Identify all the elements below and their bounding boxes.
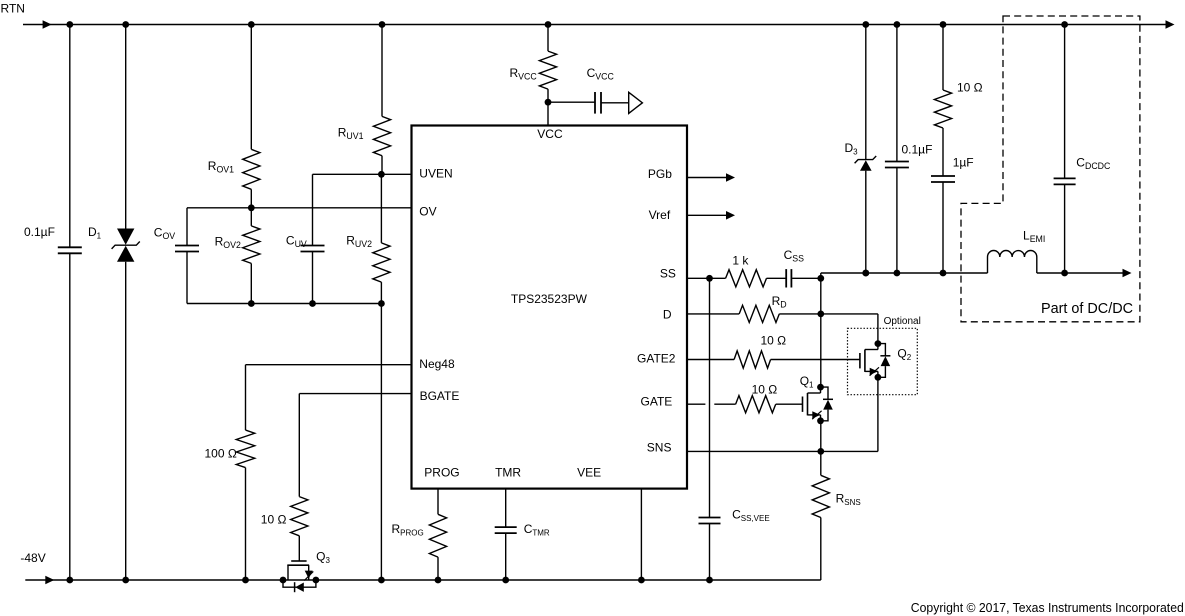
capacitor CSS xyxy=(785,269,787,287)
capacitor 0.1µF right xyxy=(885,161,909,163)
capacitor CUV wire bottom xyxy=(312,252,314,304)
capacitor CTMR wire top xyxy=(505,489,507,527)
wire CSS to drain node xyxy=(792,277,821,279)
wire SS node down xyxy=(709,278,711,517)
op-amp U1 TPS23523PW box xyxy=(412,126,688,489)
wire Neg48 down xyxy=(245,365,247,430)
wire 100 Ohm to rail xyxy=(245,468,247,580)
wire Q1 source down xyxy=(820,421,822,452)
arrow output to DC/DC xyxy=(1123,269,1132,278)
wire output rail right part xyxy=(1037,272,1123,274)
transistor Q3 left leg xyxy=(287,565,289,580)
wire PGb output xyxy=(687,177,727,179)
resistor RVCC xyxy=(547,25,549,52)
capacitor CSS,VEE xyxy=(699,517,721,519)
capacitor 0.1µF right wire top xyxy=(896,25,898,162)
wire RD to Q2 drain xyxy=(779,313,878,315)
wire GATE pin segment xyxy=(687,403,705,405)
svg-text:UVEN: UVEN xyxy=(419,167,452,181)
svg-text:Part of DC/DC: Part of DC/DC xyxy=(1041,301,1133,317)
svg-text:VCC: VCC xyxy=(537,127,563,141)
wire CVCC left xyxy=(548,101,595,103)
capacitor 0.1µF right wire bottom xyxy=(896,168,898,274)
svg-text:100 Ω: 100 Ω xyxy=(205,447,237,461)
wire output rail left part xyxy=(821,272,988,274)
svg-text:Optional: Optional xyxy=(884,316,921,327)
capacitor CUV wire top xyxy=(312,174,314,245)
svg-text:GATE2: GATE2 xyxy=(637,352,676,366)
svg-text:10 Ω: 10 Ω xyxy=(752,383,778,397)
resistor 100 Ohm xyxy=(236,430,254,468)
resistor ROV2 xyxy=(250,208,252,226)
svg-text:SNS: SNS xyxy=(647,441,672,455)
resistor 10 Ohm GATE xyxy=(736,396,776,413)
wire 1k to CSS xyxy=(767,277,787,279)
capacitor CTMR xyxy=(495,526,517,528)
wire Vref output xyxy=(687,214,727,216)
wire BGATE down xyxy=(298,394,300,497)
arrow top rail right end xyxy=(1166,20,1175,29)
svg-text:TMR: TMR xyxy=(495,466,521,480)
wire D3 top xyxy=(865,25,867,160)
svg-text:Vref: Vref xyxy=(649,208,671,222)
svg-text:0.1µF: 0.1µF xyxy=(902,143,933,157)
svg-text:Copyright © 2017, Texas Instru: Copyright © 2017, Texas Instruments Inco… xyxy=(911,600,1184,615)
wire top RTN rail xyxy=(23,24,1167,26)
wire UVEN pin xyxy=(313,173,412,175)
wire drain node down to Q1 xyxy=(820,278,822,387)
transistor Q3 channel bar xyxy=(287,564,309,566)
wire GATE after gap xyxy=(714,403,735,405)
capacitor 0.1µF input wire top xyxy=(69,25,71,248)
wire CVCC right xyxy=(601,102,628,104)
svg-text:D: D xyxy=(663,308,672,322)
capacitor 0.1µF input wire bottom xyxy=(69,253,71,580)
svg-text:-48V: -48V xyxy=(20,551,45,565)
wire D1 bottom xyxy=(125,262,127,580)
zener diode D3 xyxy=(855,156,877,163)
svg-text:10 Ω: 10 Ω xyxy=(761,334,787,348)
wire 10 Ohm to Q3 gate xyxy=(298,536,300,561)
capacitor CUV xyxy=(301,245,325,247)
transistor Q3 gate bar xyxy=(291,560,306,562)
svg-text:0.1µF: 0.1µF xyxy=(24,225,55,239)
wire BGATE pin xyxy=(299,393,411,395)
svg-text:SS: SS xyxy=(660,267,676,281)
svg-text:Neg48: Neg48 xyxy=(419,357,455,371)
dashed box Part of DC/DC xyxy=(961,16,1140,322)
wire D3 bottom xyxy=(865,171,867,273)
svg-text:VEE: VEE xyxy=(577,466,601,480)
svg-text:1µF: 1µF xyxy=(953,155,974,169)
svg-text:1 k: 1 k xyxy=(732,253,749,267)
wire OV pin to divider xyxy=(187,207,412,209)
svg-text:PGb: PGb xyxy=(648,167,672,181)
wire 10 Ohm to 1µF xyxy=(942,128,944,176)
wire VCC pin xyxy=(547,102,549,125)
wire divider to -48V rail xyxy=(380,304,382,581)
capacitor 0.1µF input xyxy=(58,246,82,248)
resistor 10 Ohm GATE2 xyxy=(734,351,771,368)
resistor 10 Ohm BGATE xyxy=(291,497,308,536)
capacitor COV wire top xyxy=(186,208,188,246)
capacitor COV wire bottom xyxy=(186,252,188,304)
svg-text:BGATE: BGATE xyxy=(420,389,460,403)
wire divider bottom bus xyxy=(187,303,381,305)
svg-text:TPS23523PW: TPS23523PW xyxy=(511,294,587,306)
capacitor 1µF xyxy=(931,175,955,177)
dotted box Optional xyxy=(848,328,918,394)
wire SNS pin xyxy=(687,450,878,452)
inductor LEMI xyxy=(987,257,989,273)
wire Q2 source down to SNS xyxy=(877,377,879,451)
capacitor 1µF wire bottom xyxy=(942,182,944,273)
capacitor CDCDC xyxy=(1054,177,1076,179)
svg-text:RTN: RTN xyxy=(1,2,25,16)
wire D pin xyxy=(687,313,739,315)
capacitor CDCDC wire bottom xyxy=(1064,184,1066,273)
svg-text:10 Ω: 10 Ω xyxy=(261,513,287,527)
junction Q3 left on rail xyxy=(280,577,287,584)
arrow top rail direction xyxy=(43,20,52,29)
resistor RPROG xyxy=(437,489,439,515)
transistor Q2 xyxy=(859,353,861,368)
resistor RUV2 xyxy=(380,174,382,243)
wire Neg48 pin xyxy=(246,364,412,366)
wire VEE pin to rail xyxy=(640,489,642,580)
resistor 10 Ohm VCC xyxy=(942,25,944,91)
junction Q3 right on rail xyxy=(313,577,320,584)
TVS diode D1 xyxy=(117,229,134,245)
resistor RSNS xyxy=(820,451,822,475)
buffer triangle after CVCC xyxy=(629,92,643,113)
arrow bottom rail direction xyxy=(45,576,54,585)
wire D1 top xyxy=(125,25,127,229)
wire GATE2 pin xyxy=(687,359,734,361)
svg-text:PROG: PROG xyxy=(424,466,459,480)
transistor Q3 body diode xyxy=(294,582,296,592)
svg-text:GATE: GATE xyxy=(641,394,673,408)
transistor Q1 xyxy=(802,397,804,412)
wire bottom -48V rail xyxy=(25,579,821,581)
wire drain node jog up xyxy=(820,273,822,278)
transistor Q3 right leg with source arrow xyxy=(308,565,310,580)
capacitor COV xyxy=(175,245,199,247)
capacitor CVCC xyxy=(594,92,596,114)
transistor Q3 body diode loop xyxy=(283,580,316,587)
capacitor CSS,VEE wire bottom xyxy=(709,524,711,581)
resistor 1 k xyxy=(726,270,767,287)
svg-text:10 Ω: 10 Ω xyxy=(957,81,983,95)
svg-text:OV: OV xyxy=(419,205,436,219)
resistor RUV1 xyxy=(381,25,383,117)
wire 10 Ohm to Q1 gate xyxy=(776,403,803,405)
resistor ROV1 xyxy=(250,25,252,150)
wire 10 Ohm to Q2 gate xyxy=(771,359,861,361)
wire SS pin xyxy=(687,277,726,279)
capacitor CDCDC wire top xyxy=(1064,25,1066,179)
capacitor CTMR wire bottom xyxy=(505,533,507,580)
resistor RD xyxy=(739,305,779,322)
